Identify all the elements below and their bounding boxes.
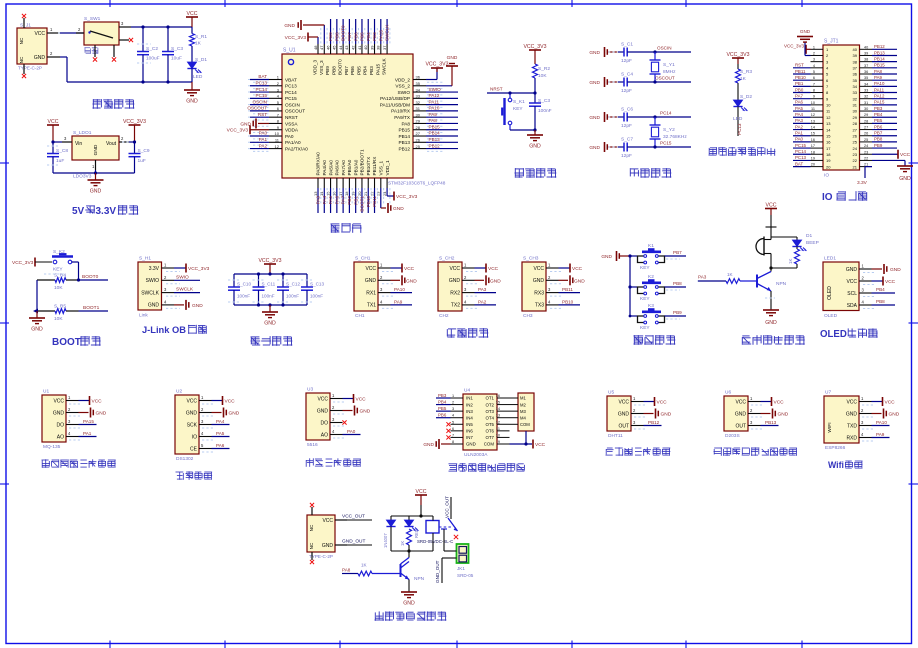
svg-text:COM: COM (520, 422, 530, 427)
title 四相五线步进电机 (449, 463, 525, 472)
svg-text:31: 31 (853, 103, 858, 108)
svg-text:RX1: RX1 (366, 290, 376, 296)
svg-text:5516: 5516 (307, 442, 318, 448)
svg-text:S_C6: S_C6 (621, 107, 633, 113)
svg-text:VCC: VCC (774, 400, 785, 406)
svg-text:22: 22 (864, 156, 868, 160)
svg-text:PC14: PC14 (660, 111, 672, 116)
svg-text:33: 33 (864, 89, 868, 93)
net PB13 (MCU pin 26) and wire (426, 137, 458, 142)
svg-text:36: 36 (864, 70, 868, 74)
net OSCIN (MCU pin 5) and wire (248, 99, 269, 104)
title 5V转3.3V电路 (0, 0, 1, 1)
svg-text:PA3: PA3 (698, 275, 707, 280)
svg-text:RED: RED (414, 529, 419, 538)
svg-text:PA10: PA10 (874, 81, 885, 86)
svg-text:47: 47 (319, 45, 324, 50)
driver U4 ULN2003A (451, 388, 510, 459)
svg-text:23: 23 (376, 191, 381, 196)
power VCC_3V3 LDO output (123, 119, 146, 142)
svg-text:GND: GND (264, 321, 276, 327)
svg-text:PA0: PA0 (347, 429, 356, 434)
svg-text:9: 9 (813, 95, 815, 99)
svg-text:PA3/RX/A0: PA3/RX/A0 (316, 152, 321, 176)
svg-text:RXD: RXD (846, 435, 857, 441)
resistor S_R1 1K (190, 27, 208, 47)
svg-text:AO: AO (321, 432, 328, 438)
svg-text:21: 21 (853, 164, 858, 169)
power VCC OLED pin 2 (872, 277, 896, 286)
svg-text:S_C9: S_C9 (138, 148, 150, 154)
net PB3 stepper IN1 (436, 393, 451, 398)
svg-text:PA5: PA5 (328, 196, 333, 205)
svg-text:NRST: NRST (490, 87, 503, 92)
svg-text:U2: U2 (176, 389, 182, 395)
svg-text:PA11: PA11 (429, 99, 440, 104)
svg-text:PB0/A0: PB0/A0 (347, 159, 352, 175)
net PB10 header left pin 6 (793, 75, 811, 80)
display LED1 OLED (823, 256, 876, 320)
svg-text:PC14: PC14 (795, 149, 807, 154)
wire relay emitter to ground (408, 580, 410, 593)
svg-text:GND: GND (229, 411, 240, 417)
net PB3 header right pin 30 (872, 106, 897, 111)
regulator S_LDO1 LDO3V3 (62, 130, 129, 180)
svg-text:J-Link OB: J-Link OB (142, 325, 186, 335)
crystal S_Y2 32.768KHz (650, 115, 688, 148)
svg-text:14: 14 (826, 127, 831, 132)
svg-text:PB5: PB5 (360, 32, 365, 41)
svg-text:15: 15 (811, 132, 815, 136)
svg-text:PB12: PB12 (429, 143, 441, 148)
svg-text:OSCOUT: OSCOUT (655, 76, 675, 81)
svg-text:LED1: LED1 (824, 256, 836, 262)
svg-text:38: 38 (853, 59, 858, 64)
svg-text:PC14: PC14 (285, 90, 297, 95)
resistor S_R2 10K (533, 64, 551, 93)
svg-text:PB9: PB9 (328, 32, 333, 41)
svg-text:BOOT0: BOOT0 (82, 274, 99, 280)
svg-text:PA4: PA4 (322, 196, 327, 205)
svg-text:12pF: 12pF (621, 153, 632, 159)
svg-text:GND: GND (846, 267, 858, 273)
svg-text:15: 15 (325, 191, 330, 196)
net PA10 header right pin 34 (872, 81, 897, 86)
svg-text:24: 24 (864, 144, 868, 148)
title 空气质量检测模块 (42, 459, 116, 468)
net PB15 header right pin 37 (872, 63, 897, 68)
net PA15 U1 pin 3 (79, 419, 97, 425)
svg-text:5: 5 (813, 70, 815, 74)
svg-text:PA3: PA3 (316, 196, 321, 205)
svg-text:PB13: PB13 (765, 420, 777, 425)
net PB11 (MCU bottom pin 22) and wire (372, 188, 377, 213)
net PC15 (MCU pin 4) and wire (248, 93, 269, 98)
svg-text:VCC: VCC (225, 399, 236, 405)
svg-text:M3: M3 (520, 409, 526, 414)
svg-text:10: 10 (496, 433, 500, 437)
svg-text:GND: GND (601, 254, 612, 260)
svg-text:PA8: PA8 (429, 118, 438, 123)
svg-text:M2: M2 (520, 402, 526, 407)
svg-text:GND: GND (31, 327, 43, 333)
svg-text:Vout: Vout (106, 141, 117, 147)
svg-text:PB9: PB9 (673, 310, 682, 315)
wire LDO Vout (122, 140, 136, 143)
svg-text:VCC_3V3: VCC_3V3 (188, 266, 210, 272)
ground GND OLED pin 1 (872, 264, 902, 274)
svg-text:NPN: NPN (776, 281, 787, 287)
svg-text:GND: GND (899, 176, 911, 182)
net PA6 (MCU bottom pin 16) and wire (334, 188, 339, 213)
svg-text:100nF: 100nF (286, 294, 299, 299)
svg-text:PB3: PB3 (369, 66, 374, 75)
svg-text:PB9: PB9 (874, 143, 883, 148)
diode D 1N4007 (383, 516, 396, 551)
svg-text:20: 20 (826, 164, 831, 169)
svg-text:PB4: PB4 (363, 66, 368, 75)
ground GND header pin 2 (797, 29, 813, 56)
title J-Link OB接口 (0, 0, 1, 1)
svg-text:S_C10: S_C10 (237, 282, 251, 287)
resistor 1K relay LED (400, 529, 412, 551)
title BOOT电路 (0, 0, 1, 1)
svg-text:45: 45 (332, 45, 337, 50)
svg-text:IO: IO (192, 434, 197, 440)
pin shadow dashes MCU top/bottom (321, 28, 390, 204)
svg-text:PA9: PA9 (429, 112, 438, 117)
ground GND stepper (423, 439, 450, 449)
svg-text:S_R4: S_R4 (54, 273, 66, 279)
net BOOT1 wire (79, 305, 109, 311)
net PA15 (MCU top pin 38) and wire (378, 19, 383, 44)
svg-text:TX2: TX2 (451, 303, 460, 309)
connector S_J1 TYPE-C-2P (17, 14, 60, 78)
svg-text:VCC_OUT: VCC_OUT (445, 496, 450, 518)
net SWCLK wire (174, 287, 200, 293)
svg-text:OSCOUT: OSCOUT (285, 109, 305, 114)
svg-text:SCK: SCK (187, 422, 198, 428)
svg-text:23: 23 (853, 152, 858, 157)
net PA3 header left pin 13 (793, 118, 811, 123)
net PB7 header right pin 26 (872, 131, 897, 136)
svg-text:D1: D1 (806, 233, 812, 239)
svg-text:3.3V: 3.3V (96, 206, 117, 217)
svg-text:PA3: PA3 (795, 118, 804, 123)
wire GND_OUT to JK1 pin2 (435, 558, 457, 583)
svg-text:BOOT0: BOOT0 (338, 59, 343, 75)
svg-text:GND: GND (449, 278, 461, 284)
svg-text:ESP8266: ESP8266 (825, 445, 846, 451)
svg-text:VCC: VCC (356, 397, 367, 403)
title 晶振电路 (630, 168, 671, 178)
terminal JK1 SRD-05 (457, 544, 474, 578)
svg-text:PB12: PB12 (874, 44, 885, 49)
svg-text:29: 29 (853, 115, 858, 120)
svg-text:37: 37 (853, 66, 858, 71)
net PA4 (MCU bottom pin 14) and wire (322, 188, 327, 213)
svg-text:18: 18 (826, 152, 831, 157)
net PC14 header left pin 18 (793, 149, 811, 154)
svg-text:32: 32 (853, 96, 858, 101)
svg-text:PC13: PC13 (256, 80, 268, 85)
svg-text:U7: U7 (825, 390, 831, 396)
svg-text:RST: RST (258, 112, 267, 117)
ground GND S_C4 row (589, 77, 618, 87)
ground GND U1 pin 2 (79, 408, 107, 418)
net PB13 U6 pin 3 (761, 420, 779, 426)
net PA3 (MCU bottom pin 13) and wire (316, 188, 321, 213)
svg-text:MQ-135: MQ-135 (43, 444, 61, 450)
svg-text:PB6: PB6 (438, 413, 447, 418)
net PA6 U2 pin 5 (212, 443, 230, 449)
svg-text:STM32F103C8T6_LQFP48: STM32F103C8T6_LQFP48 (388, 181, 446, 186)
svg-text:36: 36 (853, 72, 858, 77)
svg-text:SWCLK: SWCLK (385, 24, 390, 41)
svg-text:3.3V: 3.3V (149, 266, 160, 272)
svg-text:14: 14 (319, 191, 324, 196)
net PB14 (MCU pin 27) and wire (426, 131, 458, 136)
svg-text:40: 40 (853, 47, 858, 52)
svg-text:PB11/RX: PB11/RX (372, 156, 377, 176)
svg-text:AO: AO (57, 434, 64, 440)
svg-text:TX1: TX1 (367, 303, 376, 309)
svg-text:S_H1: S_H1 (139, 256, 151, 262)
svg-text:PB15: PB15 (399, 128, 411, 133)
svg-text:JK1: JK1 (457, 566, 465, 571)
buzzer (756, 237, 771, 269)
svg-text:OT5: OT5 (485, 422, 494, 427)
svg-text:VCC_3V3: VCC_3V3 (784, 43, 805, 48)
svg-text:6: 6 (813, 76, 815, 80)
svg-text:PB4: PB4 (874, 112, 883, 117)
svg-text:S_J1: S_J1 (20, 23, 31, 29)
svg-text:IN7: IN7 (466, 435, 473, 440)
power VCC U1 pin 1 (79, 396, 103, 405)
net PA10 U7 pin 3 (872, 420, 890, 426)
svg-text:VSSA: VSSA (285, 121, 298, 126)
wire stepper COM to VCC (510, 431, 533, 446)
power VCC (186, 11, 198, 27)
svg-text:GND: GND (96, 411, 107, 417)
svg-text:U5: U5 (608, 390, 614, 396)
svg-text:VSS_3: VSS_3 (319, 60, 324, 75)
svg-text:PC15: PC15 (256, 93, 268, 98)
svg-text:S_Y2: S_Y2 (663, 127, 675, 133)
svg-text:LED: LED (733, 116, 743, 122)
svg-text:PB15: PB15 (429, 124, 441, 129)
capacitor S_C10 100nF (228, 274, 251, 305)
svg-text:GND: GND (53, 410, 65, 416)
svg-text:37: 37 (382, 45, 387, 50)
svg-text:15: 15 (496, 401, 500, 405)
svg-text:22: 22 (369, 191, 374, 196)
svg-text:12: 12 (496, 420, 500, 424)
net PB12 U5 pin 3 (644, 420, 662, 426)
svg-text:SDA: SDA (847, 303, 858, 309)
svg-text:PB1: PB1 (795, 81, 804, 86)
svg-text:GND: GND (589, 50, 600, 56)
svg-text:1K: 1K (727, 272, 734, 277)
net PA2 (MCU pin 12) and wire (248, 143, 269, 148)
net PB0 header left pin 8 (793, 87, 811, 92)
net PB10 (MCU bottom pin 21) and wire (366, 188, 371, 213)
svg-text:IN2: IN2 (466, 402, 473, 407)
svg-text:18: 18 (811, 150, 815, 154)
svg-text:1: 1 (452, 394, 454, 398)
svg-text:BOOT1: BOOT1 (83, 305, 100, 311)
svg-text:GND: GND (589, 145, 600, 151)
svg-text:GND: GND (890, 267, 901, 273)
svg-text:13: 13 (811, 119, 815, 123)
title 声光报警电路 (742, 335, 805, 345)
svg-text:NC: NC (19, 37, 24, 44)
svg-text:GND: GND (34, 55, 46, 61)
svg-text:VCC: VCC (488, 266, 499, 272)
net PA8 header right pin 36 (872, 69, 897, 74)
svg-text:1uF: 1uF (138, 158, 146, 164)
svg-text:PA5: PA5 (795, 106, 804, 111)
svg-text:PB15: PB15 (874, 63, 885, 68)
svg-text:D203S: D203S (725, 433, 740, 439)
svg-text:M4: M4 (520, 415, 526, 420)
LED S_D2 (733, 94, 752, 136)
svg-text:PA1: PA1 (259, 137, 268, 142)
svg-text:27: 27 (864, 126, 868, 130)
net PB8 OLED SDA (872, 299, 896, 305)
svg-text:PA8: PA8 (342, 568, 351, 573)
power VCC stepper COM (533, 439, 546, 448)
net PA10 S_CH1 RX (391, 287, 413, 293)
capacitor S_C1 12pF (608, 42, 691, 65)
svg-text:GND: GND (406, 278, 417, 284)
svg-text:PB10: PB10 (562, 299, 574, 304)
svg-text:VCC: VCC (186, 398, 197, 404)
pushbutton S_K1 KEY (502, 91, 525, 130)
net VCC_OUT wire (342, 514, 372, 521)
capacitor S_C9 1uF (129, 142, 150, 173)
svg-text:GND: GND (589, 115, 600, 121)
power VCC U7 pin 1 (872, 397, 896, 406)
net PB5 (MCU top pin 41) and wire (360, 19, 365, 44)
svg-text:S_R5: S_R5 (54, 304, 66, 310)
svg-text:PA10: PA10 (394, 287, 405, 292)
net PA6 header left pin 10 (793, 100, 811, 105)
title 继电器控制电路 (375, 611, 447, 620)
net PB4 header right pin 29 (872, 112, 897, 117)
svg-text:34: 34 (853, 84, 858, 89)
svg-text:S_C11: S_C11 (262, 282, 276, 287)
svg-text:25: 25 (853, 140, 858, 145)
net PA7 (MCU bottom pin 17) and wire (341, 188, 346, 213)
capacitor S_C4 12pF (608, 72, 691, 95)
svg-text:PA15: PA15 (83, 419, 94, 424)
svg-text:S_R2: S_R2 (538, 66, 550, 72)
svg-text:PA6/A0: PA6/A0 (335, 160, 340, 176)
svg-text:S_C12: S_C12 (286, 282, 300, 287)
ground GND at MCU VSSA pin 8 (240, 118, 269, 128)
wire relay bottom rail (391, 549, 433, 552)
svg-text:S_C8: S_C8 (56, 148, 68, 154)
svg-text:21: 21 (363, 191, 368, 196)
svg-text:OSCIN: OSCIN (285, 102, 300, 107)
svg-text:44: 44 (338, 45, 343, 50)
svg-text:VSS_1: VSS_1 (379, 161, 384, 176)
svg-text:KEY: KEY (513, 106, 523, 112)
svg-text:PA4: PA4 (216, 419, 225, 424)
svg-text:VCC: VCC (900, 152, 911, 158)
ground GND filter (262, 305, 278, 327)
svg-text:OUT: OUT (735, 423, 746, 429)
svg-text:GND: GND (148, 303, 160, 309)
svg-text:26: 26 (853, 133, 858, 138)
svg-text:BOOT1: BOOT1 (360, 196, 365, 212)
svg-text:17: 17 (811, 144, 815, 148)
svg-text:VCC: VCC (416, 489, 427, 495)
svg-text:38: 38 (376, 45, 381, 50)
ground GND at MCU VSS_2 pin 35 (426, 55, 458, 86)
transistor Q2 NPN relay (401, 551, 425, 582)
svg-text:26: 26 (864, 132, 868, 136)
ground GND U3 pin 2 (343, 406, 371, 416)
svg-text:NC: NC (19, 56, 24, 63)
svg-text:30: 30 (864, 107, 868, 111)
net PB8 (MCU top pin 45) and wire (334, 19, 339, 44)
svg-text:VCC: VCC (449, 266, 460, 272)
svg-text:NC: NC (309, 542, 314, 549)
svg-text:S_C4: S_C4 (621, 72, 633, 78)
svg-text:ULN2003A: ULN2003A (464, 452, 488, 458)
title OLED显示屏 (0, 0, 1, 1)
title 主芯片 (331, 223, 362, 233)
capacitor S_C11 100nF (253, 274, 276, 305)
title 温湿度检测模块 (606, 447, 671, 456)
svg-text:PA6: PA6 (795, 100, 804, 105)
svg-text:1K: 1K (788, 259, 793, 264)
switch S_SW1 (76, 16, 133, 62)
svg-text:Link: Link (139, 313, 148, 319)
svg-text:CE: CE (190, 446, 198, 452)
title 复位电路 (515, 168, 557, 178)
connector S_H1 J-Link (138, 256, 180, 319)
svg-text:NRST: NRST (285, 115, 298, 120)
svg-text:BAT: BAT (795, 161, 804, 166)
LED relay indicator (404, 516, 419, 538)
svg-text:PA0: PA0 (285, 134, 294, 139)
svg-text:IO: IO (822, 192, 833, 203)
net PB6 stepper IN4 (436, 413, 451, 418)
svg-text:4: 4 (813, 64, 815, 68)
svg-text:SRD-05VDC-SL-C: SRD-05VDC-SL-C (417, 539, 453, 544)
svg-text:17: 17 (826, 146, 831, 151)
net PA7 header left pin 9 (793, 93, 811, 98)
net SWIO wire (174, 275, 200, 281)
svg-text:GND: GND (735, 411, 747, 417)
svg-text:PB6: PB6 (353, 32, 358, 41)
svg-text:PA9/TX: PA9/TX (394, 115, 411, 120)
svg-text:S_C13: S_C13 (310, 282, 324, 287)
relay contact switch (439, 518, 458, 551)
svg-text:VCC: VCC (187, 11, 198, 17)
svg-text:GND: GND (533, 278, 545, 284)
wire alarm emitter to ground (765, 291, 775, 310)
svg-text:IN4: IN4 (466, 415, 473, 420)
net PB8 header right pin 25 (872, 137, 897, 142)
net PA5 U2 pin 4 (212, 431, 230, 437)
power VCC_3V3 at MCU VDD_3 pin 48 (285, 33, 318, 45)
svg-text:S_C1: S_C1 (621, 42, 633, 48)
svg-text:18: 18 (344, 191, 349, 196)
